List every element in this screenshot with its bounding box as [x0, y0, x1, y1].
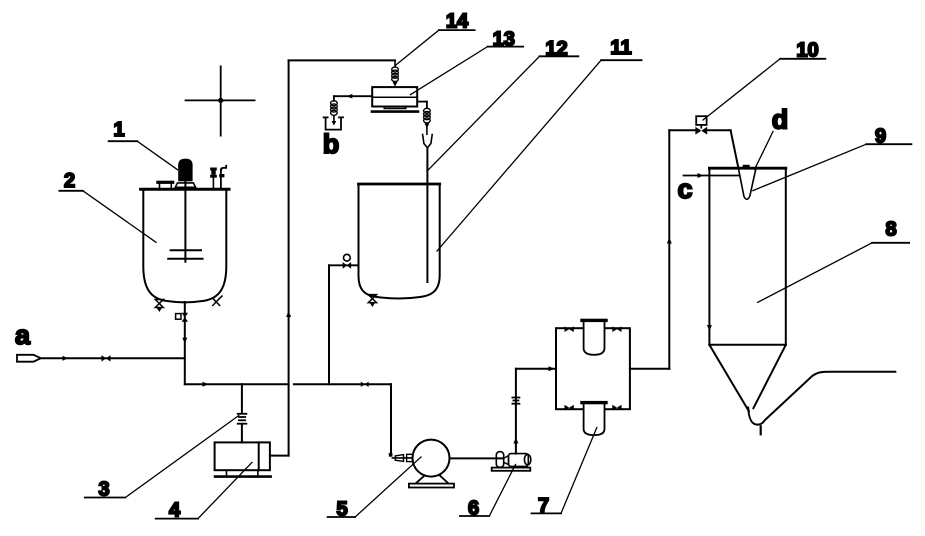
label 10 — [703, 59, 825, 120]
motor 1 base — [175, 183, 195, 187]
coil 14 above condenser — [394, 60, 396, 67]
tank 2 nozzle f — [220, 170, 222, 188]
tank 2 shell — [143, 190, 226, 303]
leader d — [755, 132, 774, 170]
dryer 8 cone — [709, 345, 749, 412]
motor 1 body — [178, 159, 192, 182]
dryer 8 top edge — [709, 167, 785, 170]
agitator shaft — [184, 181, 186, 261]
pump shaft — [450, 457, 503, 459]
svg-text:3: 3 — [98, 478, 109, 500]
valve 3 — [238, 414, 247, 424]
label 3 — [85, 416, 239, 498]
tank 2 nozzle R — [212, 177, 214, 188]
label 11 — [437, 60, 642, 251]
tank 2 bottom-right x mark — [213, 296, 222, 306]
pipe pump4 to vacuum riser — [270, 455, 289, 457]
vent top pipe — [669, 129, 695, 131]
svg-text:6: 6 — [468, 498, 479, 520]
vent riser pipe — [668, 130, 670, 368]
pump 5 casing — [413, 440, 450, 477]
pipe down to pump — [390, 384, 392, 455]
label 8 — [758, 243, 910, 303]
pipe condenser to funnel — [417, 101, 427, 103]
outlet valve with square actuator — [176, 314, 181, 320]
svg-text:14: 14 — [446, 11, 469, 33]
motor 6 base — [492, 468, 531, 471]
valve on bottom pipe — [361, 382, 369, 387]
arrow up on discharge — [513, 438, 518, 444]
arrow on pipe a — [63, 356, 69, 361]
tank 11 bottom valve symbol — [368, 295, 376, 307]
center mark crosshair — [186, 66, 255, 135]
coil on condensate drop leg — [424, 108, 431, 123]
flow arrow down on outlet — [182, 338, 187, 343]
pump discharge riser — [515, 369, 517, 454]
arrow on dryer left wall — [707, 325, 712, 331]
pipe tank11 drain down — [328, 265, 330, 384]
label 14 — [395, 30, 474, 65]
svg-text:2: 2 — [64, 170, 75, 192]
svg-text:c: c — [677, 174, 692, 204]
control valve 10 — [695, 127, 707, 135]
pipe c inlet — [684, 175, 740, 177]
label 7 — [532, 428, 597, 514]
svg-text:5: 5 — [336, 499, 347, 521]
vacuum top header pipe — [289, 59, 395, 61]
dryer 8 outlet curve — [748, 372, 895, 425]
tank 11 top edge — [359, 183, 440, 186]
coil on cup b line — [331, 101, 338, 116]
svg-text:d: d — [772, 105, 789, 135]
heater 7 top-right valve — [612, 326, 621, 332]
funnel 12 inlet — [423, 135, 433, 148]
heater 7 top tube — [584, 322, 605, 355]
tank 11 shell — [359, 185, 440, 299]
svg-text:1: 1 — [113, 119, 124, 141]
label 2 — [59, 191, 156, 243]
label 9 — [753, 144, 912, 190]
svg-text:a: a — [15, 320, 31, 350]
nozzle d funnel — [738, 166, 756, 199]
svg-text:4: 4 — [169, 499, 181, 521]
pump suction fittings — [389, 453, 393, 457]
tee pipe to valve 3 — [241, 384, 243, 413]
tank 2 top edge — [141, 188, 229, 191]
motor 6 — [496, 452, 503, 468]
tank 2 bottom-left valve symbol — [155, 300, 163, 313]
agitator impeller — [171, 249, 201, 251]
dryer 8 right wall — [785, 169, 787, 345]
dip tube 12 — [426, 148, 428, 282]
valve on discharge — [512, 398, 519, 404]
label 5 — [328, 457, 421, 517]
condenser 13 body — [372, 87, 417, 106]
dryer 8 left wall — [708, 169, 710, 345]
label 13 — [411, 47, 524, 95]
label 1 — [109, 141, 178, 170]
arrow on bottom pipe — [203, 382, 209, 387]
heater 7 bottom-right valve — [612, 405, 621, 411]
pipe heater to vent riser — [630, 368, 669, 370]
cup b — [324, 117, 343, 129]
pipe to heater 7 — [516, 368, 556, 370]
svg-text:12: 12 — [545, 38, 567, 60]
label 6 — [460, 465, 516, 517]
svg-text:10: 10 — [796, 40, 818, 62]
node a inlet symbol — [17, 355, 41, 362]
heater 7 top-left valve — [565, 326, 574, 332]
svg-text:11: 11 — [610, 37, 631, 59]
heater 7 box — [556, 328, 630, 409]
vacuum pump 4 body — [215, 442, 270, 470]
arrow up on riser — [286, 311, 291, 317]
pump 5 base — [416, 475, 449, 483]
label 12 — [427, 56, 578, 171]
dryer 8 bottom line — [709, 344, 785, 346]
svg-text:13: 13 — [493, 28, 515, 50]
vacuum riser pipe — [288, 60, 290, 455]
main bottom pipe — [185, 383, 287, 385]
svg-text:8: 8 — [885, 219, 896, 241]
pipe valve10 to nozzle — [731, 130, 738, 166]
tick below cone tip — [760, 426, 762, 434]
tank 2 outlet pipe — [184, 302, 186, 384]
heater 7 bottom-left valve — [565, 405, 574, 411]
vacuum pump 4 base — [226, 470, 228, 476]
svg-text:b: b — [323, 129, 340, 159]
svg-text:7: 7 — [538, 495, 549, 517]
pipe valve3 to box 4 — [241, 425, 243, 443]
condenser 13 stand — [384, 107, 405, 109]
pipe a feed line — [41, 357, 185, 359]
tank 11 side valve with circle — [329, 264, 359, 266]
label 4 — [156, 462, 252, 518]
pipe condenser to cup b — [334, 95, 372, 97]
tank 2 top flange — [156, 181, 174, 184]
svg-text:9: 9 — [875, 125, 886, 147]
heater 7 bottom tube — [584, 403, 605, 435]
valve on pipe a — [102, 355, 111, 362]
